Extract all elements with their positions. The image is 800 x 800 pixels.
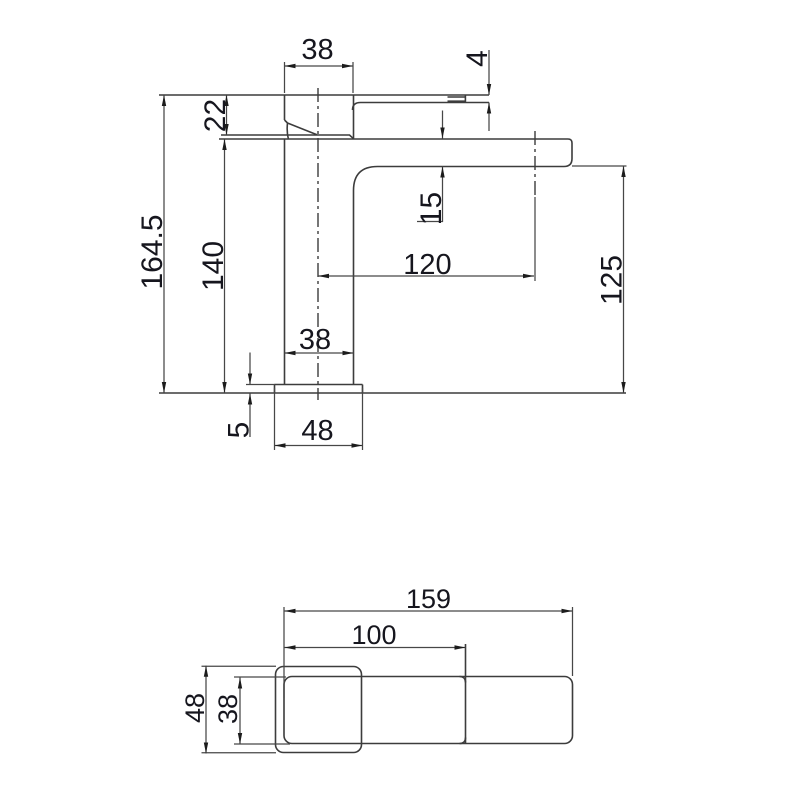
svg-text:38: 38 bbox=[299, 324, 331, 356]
svg-text:164.5: 164.5 bbox=[136, 214, 169, 289]
svg-text:38: 38 bbox=[213, 694, 243, 724]
svg-text:100: 100 bbox=[351, 620, 396, 650]
svg-text:140: 140 bbox=[197, 241, 230, 291]
svg-text:15: 15 bbox=[415, 192, 448, 225]
svg-text:5: 5 bbox=[223, 422, 256, 439]
svg-text:120: 120 bbox=[403, 249, 451, 281]
svg-text:48: 48 bbox=[180, 693, 210, 723]
svg-text:125: 125 bbox=[596, 255, 629, 305]
svg-text:38: 38 bbox=[301, 34, 333, 66]
svg-text:22: 22 bbox=[199, 99, 232, 132]
svg-text:48: 48 bbox=[301, 415, 333, 447]
svg-text:4: 4 bbox=[461, 50, 494, 67]
svg-text:159: 159 bbox=[406, 584, 451, 614]
